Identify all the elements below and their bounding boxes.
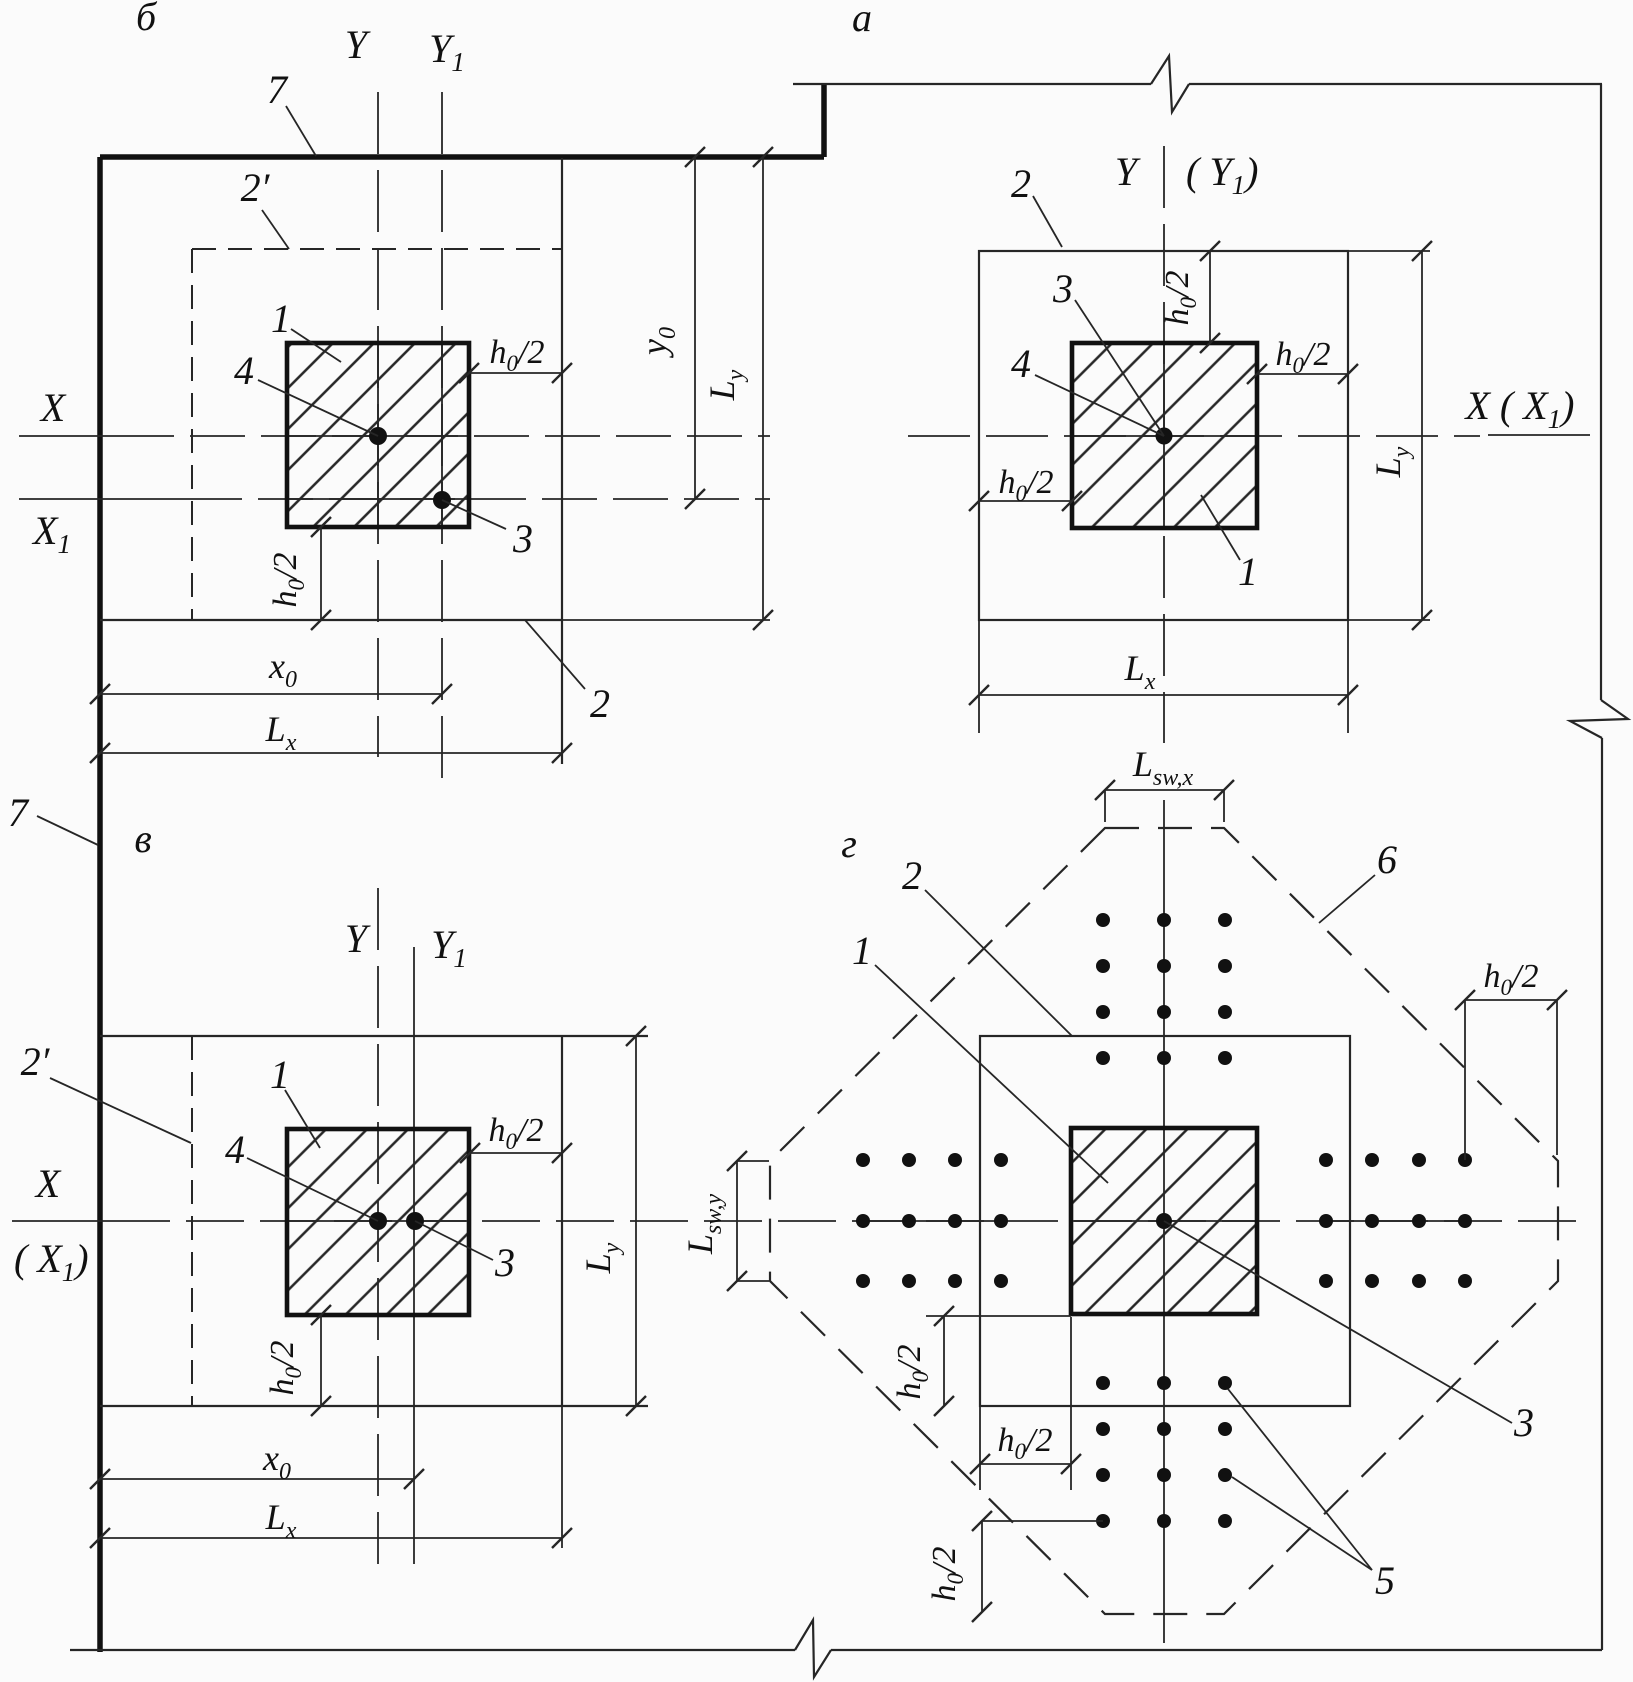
svg-text:X: X bbox=[34, 1161, 62, 1206]
dim h0/2 below column в (rotated) bbox=[320, 1315, 322, 1406]
svg-text:в: в bbox=[134, 816, 151, 861]
svg-text:2: 2 bbox=[1011, 161, 1031, 206]
dim Lx of б bbox=[100, 752, 562, 754]
svg-text:3: 3 bbox=[1052, 266, 1073, 311]
centre-line solid runs across columns bbox=[287, 435, 470, 437]
svg-text:2′: 2′ bbox=[241, 165, 271, 210]
slab edge 7 : thick L-shaped edge of slab, top-left bbox=[821, 84, 827, 157]
force point dot 3 of б bbox=[433, 491, 451, 509]
dim Ly of a bbox=[1421, 251, 1423, 620]
column 1 of в : hatched bbox=[287, 1129, 469, 1315]
svg-text:4: 4 bbox=[225, 1127, 245, 1172]
axis X of в and г bbox=[12, 1220, 112, 1222]
svg-text:Y: Y bbox=[345, 916, 371, 961]
dim Lsw,y of г (rotated) bbox=[736, 1161, 738, 1281]
axis Y1 of б bbox=[441, 92, 443, 778]
axis Y of a bbox=[1163, 146, 1165, 743]
svg-text:а: а bbox=[852, 0, 872, 40]
axis X of б bbox=[19, 435, 119, 437]
centre dot 4 of в bbox=[369, 1212, 387, 1230]
svg-text:2: 2 bbox=[590, 681, 610, 726]
dim x0 of в bbox=[100, 1478, 414, 1480]
dots 5 : left group bbox=[856, 1153, 870, 1167]
bottom slab edge with break bbox=[70, 1649, 795, 1651]
dots 5 : bottom group bbox=[1096, 1376, 1110, 1390]
dim h0/2 top-right of г bbox=[1465, 999, 1557, 1001]
reinforcement contour 6 : dashed octagon bbox=[770, 828, 1558, 1614]
contour extensions of a for dims bbox=[1348, 250, 1430, 252]
axis Y1 of в : solid bbox=[413, 947, 415, 1564]
dim h0/2 top of a (rotated) bbox=[1209, 251, 1211, 343]
column 1 of a : hatched bbox=[1072, 343, 1257, 528]
dim h0/2 below column б (rotated) bbox=[320, 527, 322, 620]
column 1 of г : hatched bbox=[1071, 1128, 1257, 1314]
dim Ly of в bbox=[635, 1036, 637, 1406]
contour 2 of г : outer square bbox=[980, 1036, 1350, 1406]
svg-text:( X1): ( X1) bbox=[14, 1236, 89, 1287]
svg-text:2: 2 bbox=[902, 853, 922, 898]
force dot 3 of в bbox=[406, 1212, 424, 1230]
transverse reinforcement dots 5 : top group bbox=[1096, 913, 1110, 927]
reduced contour 2' of б : dashed bbox=[192, 248, 562, 250]
svg-text:3: 3 bbox=[1513, 1400, 1534, 1445]
centre of gravity dot 4 of б bbox=[369, 427, 387, 445]
contour 2 of б : right and bottom sides bbox=[561, 158, 563, 764]
contour extension of в for Lx dim bbox=[561, 1406, 563, 1548]
axis X of a bbox=[908, 435, 1480, 437]
svg-text:2′: 2′ bbox=[21, 1039, 51, 1084]
dim h0/2 left of a bbox=[979, 500, 1072, 502]
svg-text:г: г bbox=[841, 821, 857, 866]
centre dot 4/3 of a bbox=[1156, 428, 1173, 445]
svg-text:4: 4 bbox=[1011, 341, 1031, 386]
dim x0 of б bbox=[100, 693, 442, 695]
dim Ly of б bbox=[762, 157, 764, 620]
dim Lx of в bbox=[100, 1537, 562, 1539]
extension of contour bottom for dims bbox=[562, 619, 770, 621]
contour 2 of a bbox=[979, 251, 1348, 620]
dots 5 : right group bbox=[1319, 1153, 1333, 1167]
dim h0/2 bottom of г (rotated) bbox=[981, 1521, 983, 1612]
dim y0 of б bbox=[694, 157, 696, 499]
axis Y of в : dashed bbox=[377, 888, 379, 1564]
reduced contour 2' of в : dashed vertical bbox=[191, 1036, 193, 1406]
dim h0/2 right of column б bbox=[469, 372, 562, 374]
right slab border with break bbox=[1600, 84, 1602, 700]
svg-text:6: 6 bbox=[1377, 837, 1397, 882]
dim Lsw,x of г bbox=[1105, 789, 1224, 791]
svg-text:5: 5 bbox=[1375, 1558, 1395, 1603]
svg-text:X: X bbox=[39, 385, 67, 430]
svg-text:Y: Y bbox=[1115, 149, 1141, 194]
svg-text:Y: Y bbox=[345, 22, 371, 67]
column 1 of б : hatched bbox=[287, 343, 469, 527]
svg-text:1: 1 bbox=[270, 1052, 290, 1097]
axis Y of г bbox=[1163, 800, 1165, 1643]
dim h0/2 below square of г bbox=[980, 1463, 1071, 1465]
dim h0/2 lower-left vertical of г (rotated) bbox=[943, 1316, 945, 1406]
svg-text:1: 1 bbox=[1238, 549, 1258, 594]
svg-text:б: б bbox=[136, 0, 158, 39]
svg-text:7: 7 bbox=[267, 67, 289, 112]
svg-text:3: 3 bbox=[494, 1240, 515, 1285]
centre dot of г bbox=[1156, 1213, 1172, 1229]
dim Lx of a bbox=[979, 694, 1348, 696]
axis X1 of б bbox=[19, 498, 187, 500]
svg-text:7: 7 bbox=[8, 790, 30, 835]
axis Y of б bbox=[377, 92, 379, 757]
svg-text:1: 1 bbox=[271, 296, 291, 341]
contour 2 of в bbox=[100, 1035, 648, 1037]
svg-text:( Y1): ( Y1) bbox=[1186, 149, 1258, 200]
svg-text:1: 1 bbox=[852, 928, 872, 973]
dim h0/2 right of a bbox=[1257, 373, 1348, 375]
slab edge of panel a : thin top edge with break bbox=[793, 83, 1151, 85]
dim h0/2 right of в bbox=[470, 1152, 562, 1154]
svg-text:4: 4 bbox=[234, 348, 254, 393]
svg-text:3: 3 bbox=[512, 516, 533, 561]
